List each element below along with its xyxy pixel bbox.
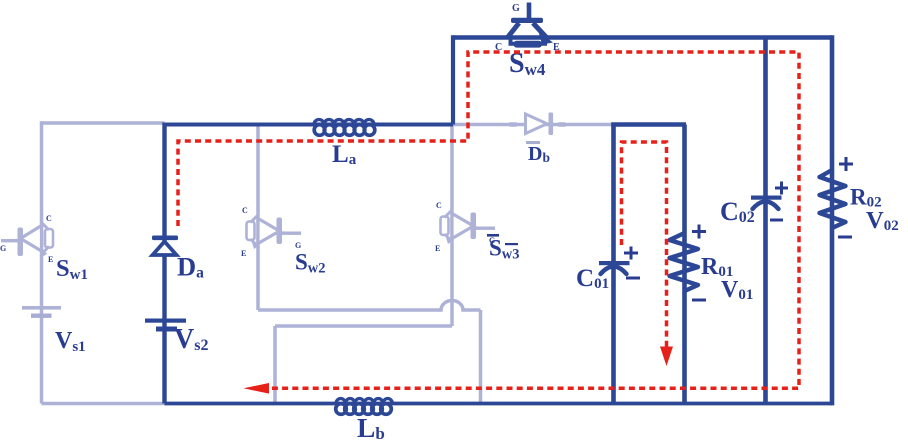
wire red branch inside output loop 1 <box>622 142 667 348</box>
R01 plus sign <box>692 225 706 239</box>
transistor Q Sw4 (IGBT, gate up, on top rail) <box>495 3 560 54</box>
R02 minus sign <box>838 236 852 239</box>
svg-text:E: E <box>435 244 440 253</box>
wire corner vertical joining top rail to La rail <box>451 35 455 124</box>
wire Da/Vs2 branch vertical <box>162 123 166 404</box>
Sw2 triangle <box>258 219 280 244</box>
Vs1 short plate <box>31 314 52 318</box>
resistor R02 <box>820 157 854 237</box>
Sw1 emitter diagonal <box>42 247 50 255</box>
Sw4 channel bracket <box>511 38 546 44</box>
Sw1 collector diagonal <box>42 223 50 231</box>
Sw1 gate lead <box>1 239 19 242</box>
transistor Q Sw2 (faded IGBT, gate right) <box>241 206 301 258</box>
C02 top plate <box>751 196 782 200</box>
wire bottom rail <box>165 402 833 406</box>
diode Db (faded) <box>509 113 567 136</box>
R02 plus sign <box>839 157 853 171</box>
svg-text:C: C <box>46 214 52 223</box>
wire vertical from Sw2 emitter down to bottom rail <box>479 310 483 404</box>
Sw2 gate bar <box>277 218 283 245</box>
wire Sw2 emitter horizontal with hop over Sw3 line <box>258 301 481 311</box>
Da triangle <box>153 242 177 256</box>
Sw1 emitter arrow <box>41 250 48 257</box>
Sw3 channel bar <box>441 217 449 236</box>
Sw3 gate lead <box>475 227 495 230</box>
Sw2 channel bar <box>247 222 255 241</box>
wire faded bottom-left segment <box>42 402 165 406</box>
R01 minus sign <box>692 299 706 302</box>
battery Vs2 <box>145 319 186 332</box>
wire faded rail through Db (La corner to output loop 1) <box>453 123 612 127</box>
Sw2 gate lead <box>281 232 301 235</box>
wire output loop 1 right vertical (R01) <box>682 125 687 404</box>
wire La rail <box>163 123 454 127</box>
C02 minus sign <box>770 219 783 222</box>
Vs2 short plate <box>156 327 177 332</box>
Sw3 emitter diagonal <box>445 234 453 242</box>
transistor Q Sw3 (faded IGBT, gate right) <box>435 201 495 253</box>
Sw3 emitter arrow <box>446 238 453 245</box>
Sw4 gate lead <box>527 3 532 20</box>
svg-text:G: G <box>512 3 520 14</box>
Da cathode bar <box>152 236 178 241</box>
resistor R01 <box>670 225 707 301</box>
wire Sw2 collector vertical <box>256 125 260 311</box>
svg-text:C: C <box>242 206 248 215</box>
wire output loop 1 left vertical (C01) <box>611 125 616 404</box>
Sw2 collector diagonal <box>251 215 259 223</box>
C02 curved plate <box>753 202 779 210</box>
battery Vs1 (faded) <box>22 306 61 318</box>
Vs2 long plate <box>145 319 186 323</box>
red arrowhead down (through R01 loop) <box>660 347 673 367</box>
Sw4 emitter diagonal <box>533 23 547 38</box>
wire C02 branch vertical <box>763 38 768 404</box>
svg-text:G: G <box>0 244 6 253</box>
wire top rail <box>453 35 832 40</box>
capacitor C01 <box>599 247 640 279</box>
wire output loop 1 top <box>611 122 686 127</box>
wire Sw3 collector/emitter vertical <box>450 125 454 327</box>
transistor Q Sw1 (faded IGBT, gate left) <box>0 214 53 264</box>
wire red main loop (Da - La - Sw4 - C02 - bottom return) <box>178 52 799 388</box>
inductor La <box>314 120 375 136</box>
inductor Lb <box>336 399 393 415</box>
Sw4 emitter arrow <box>539 32 554 45</box>
Db cathode bar <box>549 113 554 136</box>
C01 plus sign <box>624 247 638 260</box>
Sw3 collector diagonal <box>445 210 453 218</box>
wire vertical from Sw3 emitter down to bottom rail <box>273 326 277 404</box>
red arrowhead left (bottom return) <box>244 383 270 394</box>
Sw1 channel bar <box>45 229 53 248</box>
Sw2 emitter diagonal <box>251 239 259 247</box>
C01 minus sign <box>626 277 640 280</box>
Db triangle <box>526 114 548 134</box>
Sw4 channel bar <box>514 41 543 48</box>
C02 plus sign <box>775 182 788 195</box>
Vs1 long plate <box>22 306 61 310</box>
svg-text:E: E <box>48 255 53 264</box>
Sw3 triangle <box>452 214 474 239</box>
C01 top plate <box>599 261 630 265</box>
svg-text:C: C <box>436 201 442 210</box>
Sw4 gate bar <box>511 18 543 23</box>
Db anode lead tick <box>509 122 518 127</box>
Sw1 triangle <box>21 226 42 252</box>
Sw2 emitter arrow <box>252 243 259 250</box>
C01 curved plate <box>601 267 627 275</box>
Sw1 gate bar <box>18 228 24 257</box>
Sw4 collector diagonal <box>508 23 520 38</box>
svg-text:E: E <box>241 249 246 258</box>
Db cathode lead tick <box>558 122 567 127</box>
wire Sw3 emitter horizontal <box>275 324 452 328</box>
wire right rail (R02 branch) <box>830 35 835 405</box>
diode Da <box>152 236 178 256</box>
wire faded top rail left segment (Vs1 branch to Da branch) <box>42 121 165 125</box>
Sw3 gate bar <box>471 213 477 240</box>
wire faded left vertical (Sw1/Vs1 branch) <box>40 121 44 403</box>
capacitor C02 <box>751 182 788 221</box>
